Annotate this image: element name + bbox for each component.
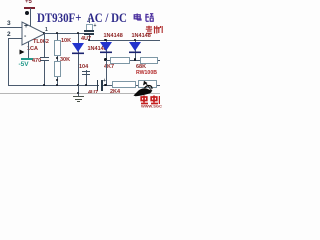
wire R1 stub: [57, 33, 58, 40]
plus mark bus cap: [103, 78, 106, 84]
label 104: [79, 64, 88, 70]
wire diode D2 column: [135, 40, 136, 60]
watermark www text: [141, 104, 162, 109]
label 4U7 bus: [88, 90, 98, 96]
label 4U7 top: [81, 36, 91, 42]
capacitor C 4U7 plate2: [84, 33, 94, 35]
node dot bus D1: [104, 84, 107, 87]
node dot bus C104: [85, 84, 88, 87]
node dot bus D3: [77, 84, 80, 87]
label TL062: [33, 39, 49, 45]
resistor R4 68K: [140, 57, 158, 64]
diode D3 1N4148: [71, 42, 85, 55]
node dot rail left: [88, 39, 91, 42]
pin number 3: [7, 20, 11, 27]
resistor R5 2K4: [112, 81, 136, 88]
power +5 rail bar: [24, 7, 35, 9]
label 30K: [60, 57, 70, 63]
bus wire bottom: [8, 85, 160, 86]
node dot D1 top: [104, 39, 107, 42]
capacitor C 4U7 bus plate1: [97, 80, 99, 91]
label -5V: [19, 61, 29, 68]
potentiometer wiper arrow: [140, 78, 154, 92]
op-amp U1 TL062 triangle: [21, 21, 47, 47]
capacitor C 4U7 bus gap: [99, 80, 102, 91]
title 电路 (CJK mimic): [133, 13, 154, 23]
node dot output: [43, 32, 46, 35]
node dot D1 bottom: [104, 58, 107, 61]
label RW100B: [136, 70, 157, 76]
junction dot near +5 wire: [25, 11, 29, 15]
capacitor C104 stub: [86, 70, 87, 85]
wire R2 to bus: [57, 77, 58, 85]
node dot D2 bottom: [134, 58, 137, 61]
label 2K4: [110, 89, 120, 95]
capacitor C 4U7 bus plate2: [101, 80, 103, 91]
op-amp - input mark: [24, 33, 26, 40]
gray rail line: [0, 93, 160, 94]
diode D1 1N4148: [99, 41, 113, 54]
label 4K7: [104, 64, 114, 70]
resistor R2 30K: [54, 61, 61, 77]
pin number 1: [45, 27, 48, 33]
label 实物图 (CJK mimic, red): [145, 25, 163, 34]
wire pin2 input: [8, 38, 22, 39]
wire capacitor C470 branch vertical: [44, 33, 45, 57]
label 1N4148 for D3: [88, 46, 107, 52]
capacitor C470 bottom plate: [40, 60, 49, 61]
resistor R3 4K7: [110, 57, 130, 64]
node dot R2 bottom: [56, 79, 59, 82]
wire between R1 R2: [57, 56, 58, 61]
capacitor C 4U7 top body: [86, 24, 93, 31]
capacitor C470 top plate: [40, 57, 49, 58]
wire pin3 input: [0, 27, 22, 28]
wire 4U7 stub up: [89, 18, 90, 23]
label 10K: [61, 38, 71, 44]
potentiometer RW100B box: [138, 80, 158, 88]
capacitor C 4U7 plate1: [84, 30, 94, 32]
pin number 2: [7, 31, 11, 38]
resistor R1 10K: [54, 40, 61, 56]
watermark 虫虫 (CJK mimic, red): [140, 95, 160, 105]
node dot gray rail: [77, 92, 80, 95]
power -5V bar: [21, 58, 34, 60]
power +5 label: [25, 0, 32, 5]
plus mark of 4U7: [94, 23, 97, 29]
watermark hat logo: [133, 84, 154, 99]
wire op-amp output horizontal: [44, 33, 90, 34]
wire top rail: [89, 40, 160, 41]
node dot between R1 R2: [56, 57, 59, 60]
title DT930F+ AC/DC: [37, 11, 127, 24]
wire op-amp V- down: [28, 42, 29, 58]
wire C470 to bus: [44, 61, 45, 85]
label 1N4148 for D2: [132, 33, 151, 39]
wire +5 to op-amp V+: [30, 8, 31, 26]
capacitor C104 plate2: [82, 74, 90, 75]
node dot D2 top: [134, 39, 137, 42]
wire second row horizontal: [106, 60, 161, 61]
label 68K: [136, 64, 146, 70]
node dot R1 top: [56, 32, 59, 35]
wire feedback vertical from pin2 to bus: [8, 38, 9, 86]
diode D2 1N4148: [128, 41, 142, 54]
label 1CA: [27, 46, 38, 52]
ground symbol: [73, 96, 84, 97]
node dot bus R2: [56, 84, 59, 87]
op-amp + input mark: [24, 23, 28, 30]
junction arrow near V-: [19, 49, 25, 55]
wire D1 column lower to bus: [106, 60, 107, 85]
wire diode D3 column: [78, 33, 79, 85]
capacitor C104 plate1: [82, 71, 90, 72]
label 470: [32, 58, 41, 64]
wire 4U7 stub down: [89, 35, 90, 40]
wire diode D1 column upper: [106, 40, 107, 60]
ground stub wire: [78, 85, 79, 96]
label 1N4148 for D1: [104, 33, 123, 39]
node dot bus C470: [43, 84, 46, 87]
node dot D3 top: [77, 32, 80, 35]
